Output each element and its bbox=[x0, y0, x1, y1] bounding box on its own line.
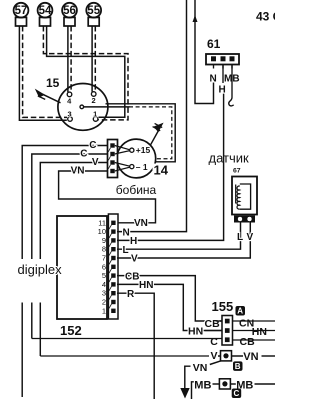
wire V (coil pin3) bbox=[40, 157, 107, 356]
svg-text:2: 2 bbox=[102, 298, 106, 307]
155 row2 labels HN HN bbox=[188, 325, 275, 338]
wire VN (coil pin4 to digiplex pin11) bbox=[59, 166, 156, 223]
coil HT cable outer bbox=[106, 104, 176, 162]
svg-text:4: 4 bbox=[102, 280, 106, 289]
svg-text:10: 10 bbox=[98, 227, 106, 236]
svg-text:155: 155 bbox=[212, 299, 234, 314]
badge C bbox=[232, 389, 242, 399]
distributor flash arrow bbox=[37, 91, 61, 103]
svg-text:V: V bbox=[131, 254, 138, 265]
spark plug terminal 56 bbox=[62, 3, 77, 26]
spark plug terminal 57 bbox=[14, 3, 29, 26]
svg-text:3: 3 bbox=[68, 109, 72, 118]
wire MB squiggle from 61 bbox=[229, 65, 234, 106]
svg-text:1: 1 bbox=[93, 109, 97, 118]
coil connector strip bbox=[108, 140, 118, 178]
svg-text:HN: HN bbox=[139, 280, 153, 291]
svg-text:бобина: бобина bbox=[116, 183, 157, 197]
spark plug terminal 55 bbox=[86, 3, 101, 26]
wire V (digiplex pin7 to sensor) bbox=[117, 223, 250, 265]
svg-text:7: 7 bbox=[102, 254, 106, 263]
svg-text:C: C bbox=[80, 149, 87, 160]
svg-text:61: 61 bbox=[207, 37, 221, 51]
svg-text:5: 5 bbox=[102, 271, 106, 280]
wire C (coil pin2) bbox=[32, 149, 108, 339]
wire CB (digiplex pin5 to connector 155 row1) bbox=[117, 271, 222, 321]
svg-text:VN: VN bbox=[243, 351, 258, 363]
long wire from C2 to 155 row3 bbox=[32, 338, 222, 340]
svg-text:MB: MB bbox=[194, 379, 211, 391]
wire L (digiplex pin8 to sensor) bbox=[117, 223, 241, 256]
VN branch with down arrow bbox=[180, 361, 221, 399]
svg-text:C: C bbox=[234, 389, 240, 398]
row C: MB connector MB bbox=[192, 379, 276, 399]
spark plug terminal 54 bbox=[38, 3, 53, 26]
wire HN (digiplex pin4 to connector 155 row2) bbox=[117, 280, 222, 330]
svg-text:15: 15 bbox=[46, 76, 60, 90]
svg-text:8: 8 bbox=[102, 245, 106, 254]
svg-text:V: V bbox=[92, 157, 99, 168]
svg-text:R: R bbox=[127, 289, 135, 300]
svg-text:67: 67 bbox=[233, 168, 241, 175]
connector 155 bbox=[212, 299, 234, 345]
long wire from V to connector B bbox=[40, 355, 209, 357]
digiplex pin strip bbox=[98, 214, 118, 319]
svg-text:B: B bbox=[235, 362, 241, 371]
coil flash arrow bbox=[150, 123, 162, 146]
wire N from 61 to top edge bbox=[193, 0, 214, 104]
svg-text:6: 6 bbox=[102, 262, 106, 271]
svg-text:HN: HN bbox=[188, 325, 203, 337]
HT cable from 54 to distributor terminal 1 bbox=[43, 26, 128, 120]
svg-text:57: 57 bbox=[15, 5, 28, 17]
row B: V connector VN bbox=[211, 350, 276, 363]
distributor 15 bbox=[46, 76, 108, 130]
svg-text:VN: VN bbox=[193, 362, 208, 374]
distributor terminal 4 bbox=[67, 92, 72, 106]
svg-text:2: 2 bbox=[92, 96, 96, 105]
svg-text:14: 14 bbox=[154, 163, 169, 178]
svg-text:– 1: – 1 bbox=[136, 162, 148, 172]
svg-text:H: H bbox=[130, 236, 137, 247]
HT cable from 57 to distributor terminal 3 bbox=[19, 26, 67, 120]
svg-text:CB: CB bbox=[125, 271, 139, 282]
svg-text:56: 56 bbox=[63, 5, 76, 17]
svg-text:3: 3 bbox=[102, 289, 106, 298]
HT cable from 55 to distributor terminal 2 bbox=[92, 26, 95, 92]
svg-text:C: C bbox=[210, 336, 218, 348]
badge A bbox=[236, 306, 246, 316]
svg-text:VN: VN bbox=[134, 218, 148, 229]
svg-text:55: 55 bbox=[87, 5, 100, 17]
svg-text:H: H bbox=[219, 85, 226, 96]
svg-text:11: 11 bbox=[98, 218, 106, 227]
wire H (digiplex pin9 to connector 61) bbox=[117, 94, 224, 248]
digiplex box 152 bbox=[18, 216, 108, 338]
coil circle 14 bbox=[117, 139, 156, 178]
svg-text:9: 9 bbox=[102, 236, 106, 245]
svg-text:CB: CB bbox=[205, 318, 221, 330]
HT cable from 56 to distributor terminal 4 bbox=[68, 26, 71, 92]
wire R (digiplex pin3 to bottom edge) bbox=[117, 289, 154, 399]
svg-text:VN: VN bbox=[71, 166, 85, 177]
wire C (coil pin1 to bottom left) bbox=[22, 140, 107, 397]
svg-text:V: V bbox=[211, 350, 218, 362]
svg-text:CB: CB bbox=[240, 336, 256, 348]
distributor terminal 2 bbox=[91, 92, 96, 105]
svg-text:1: 1 bbox=[102, 306, 106, 315]
155 row1 labels CB CN bbox=[205, 317, 276, 330]
distributor rotor bbox=[80, 105, 130, 109]
svg-text:L: L bbox=[123, 245, 129, 256]
distributor terminal 3 bbox=[68, 109, 73, 121]
svg-text:54: 54 bbox=[39, 5, 52, 17]
label 14 bbox=[153, 163, 170, 178]
svg-text:V: V bbox=[247, 232, 254, 243]
coil HT cable inner dashed bbox=[129, 107, 172, 159]
distributor terminal 1 bbox=[93, 109, 98, 121]
svg-text:датчик: датчик bbox=[209, 151, 250, 166]
coil terminal -1 bbox=[115, 162, 148, 172]
badge B bbox=[233, 361, 243, 371]
155 row3 labels C CB bbox=[210, 336, 275, 348]
svg-text:152: 152 bbox=[60, 323, 82, 338]
coil terminal +15 bbox=[115, 145, 151, 155]
svg-text:L: L bbox=[237, 232, 243, 243]
svg-text:N: N bbox=[123, 227, 130, 238]
wire N (digiplex pin10 to top edge) bbox=[117, 0, 187, 238]
svg-text:+15: +15 bbox=[136, 145, 151, 155]
svg-text:C: C bbox=[89, 140, 96, 151]
svg-text:digiplex: digiplex bbox=[18, 262, 63, 277]
svg-text:43 C: 43 C bbox=[256, 10, 275, 24]
connector 61 bbox=[206, 37, 240, 96]
sensor датчик bbox=[209, 151, 258, 244]
wire H stub from 61 bbox=[222, 65, 224, 84]
svg-text:A: A bbox=[237, 307, 243, 316]
